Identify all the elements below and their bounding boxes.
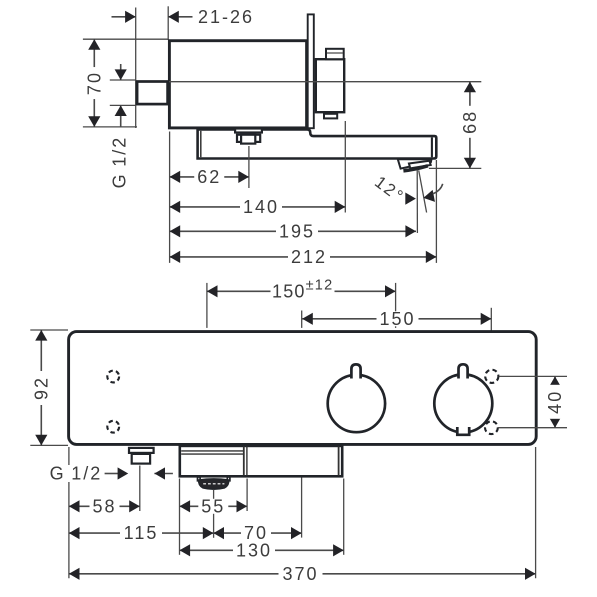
dimension 68 bottom extension line — [429, 167, 481, 169]
right knob pointer nub — [459, 364, 468, 378]
escutcheon and spout profile (side view) — [198, 129, 437, 158]
aerator highlight line — [203, 483, 224, 485]
valve cap seam — [327, 52, 343, 54]
centerline upper solid segment — [301, 311, 303, 328]
extension line spout left edge — [179, 479, 181, 555]
aerator mesh bar — [403, 166, 428, 171]
extension line nut center — [248, 146, 250, 188]
dimension 21-26 — [112, 16, 136, 18]
dimension 150+-12 left extension line — [206, 283, 208, 328]
extension line spout end — [435, 160, 437, 263]
svg-text:55: 55 — [201, 496, 225, 516]
dimension 70 (front) — [213, 532, 301, 534]
dimension 40 — [554, 376, 556, 427]
extension line below body front face — [169, 132, 171, 263]
spout housing inner right line — [338, 447, 340, 476]
centerline (dashed) — [301, 336, 303, 477]
dimension 130 — [180, 549, 344, 551]
svg-text:68: 68 — [460, 110, 480, 134]
svg-text:40: 40 — [545, 390, 565, 414]
aerator ear right — [227, 477, 230, 481]
wall plate — [308, 14, 314, 128]
wall face extension line — [135, 8, 137, 129]
dimension 40 top extension line — [499, 375, 567, 377]
svg-text:195: 195 — [279, 221, 315, 241]
inlet stub flange (front view) — [129, 448, 154, 453]
dimension 92 top extension line — [30, 329, 68, 331]
main body (side view) — [169, 41, 306, 128]
dimension 195 — [170, 230, 416, 232]
valve cartridge body — [316, 59, 344, 112]
mixer body (front view) — [69, 332, 537, 445]
spout seam line 1 — [181, 450, 243, 452]
dimension 62 — [170, 176, 249, 178]
extension line valve right edge — [344, 121, 346, 213]
G1/2 stub bottom extension line — [110, 104, 136, 106]
aerator face plate (tilted 12deg) — [409, 161, 431, 169]
svg-text:21-26: 21-26 — [198, 7, 254, 27]
12 deg right arrow with leader arc — [422, 190, 435, 204]
dimension 92 — [40, 330, 42, 445]
aerator ear left — [198, 477, 201, 481]
G1/2 wall stub — [137, 82, 168, 105]
extension line body left edge (below) — [68, 447, 70, 578]
dimension 150 — [302, 318, 491, 320]
svg-text:150: 150 — [379, 309, 415, 329]
valve bottom tab — [324, 114, 337, 119]
svg-text:70: 70 — [84, 71, 104, 95]
escutcheon inner edge line — [200, 131, 202, 157]
check valve nut flange — [235, 129, 262, 133]
dimension 140 — [170, 206, 346, 208]
svg-text:58: 58 — [92, 496, 116, 516]
svg-text:G 1/2: G 1/2 — [110, 136, 130, 189]
aerator (front view, dark) — [199, 479, 229, 489]
svg-text:G 1/2: G 1/2 — [50, 464, 103, 484]
svg-text:130: 130 — [236, 540, 272, 560]
dimension 55 — [180, 505, 248, 507]
dimension 70 — [93, 39, 95, 127]
spout divider line 1 — [243, 447, 245, 476]
12 deg left arrow — [405, 193, 416, 205]
12 deg reference vertical line — [416, 170, 418, 233]
extension line spout section right — [246, 479, 248, 512]
dimension 150+-12 — [207, 290, 396, 292]
dimension 58 — [69, 505, 140, 507]
dimension 370 — [69, 573, 536, 575]
screw hole top-right (dashed) — [485, 370, 498, 383]
right knob (volume handle) — [434, 374, 492, 432]
dimension 115 — [69, 532, 214, 534]
spout tip inner line — [431, 138, 433, 158]
left knob (thermostat handle) — [328, 375, 385, 432]
G1/2 lower arrow — [120, 105, 122, 127]
body front face extension line (top) — [167, 6, 169, 40]
dimension 92 bottom extension line — [30, 444, 68, 446]
dimension 68 — [469, 82, 471, 169]
aerator wedge (side view) — [398, 159, 432, 168]
dimension 70 top extension line — [83, 38, 168, 40]
12 deg slanted line — [419, 170, 427, 212]
right knob bottom tab — [457, 427, 469, 435]
svg-text:370: 370 — [282, 564, 318, 584]
dimension 150 right extension line — [490, 308, 492, 369]
extension line body right edge (below) — [535, 447, 537, 578]
dimension 70 bottom extension line — [83, 126, 137, 128]
dimension 150+-12 right extension line — [395, 283, 397, 328]
spout divider line 2 — [246, 447, 248, 476]
screw hole top-left (dashed) — [107, 371, 119, 383]
spout seam line 2 — [181, 453, 243, 455]
extension line aerator center — [213, 490, 215, 538]
screw hole bottom-left (dashed) — [107, 421, 119, 433]
svg-text:212: 212 — [291, 247, 327, 267]
svg-text:115: 115 — [124, 523, 159, 543]
valve cartridge cap — [326, 49, 344, 59]
left knob pointer nub — [351, 364, 360, 378]
dimension 40 bottom extension line — [498, 427, 567, 429]
screw hole bottom-right (dashed) — [485, 421, 498, 434]
dimension 212 — [170, 256, 437, 258]
G1/2 upper arrow — [120, 64, 122, 80]
inlet stub shank — [132, 454, 150, 464]
extension line spout housing right — [343, 479, 345, 555]
internal seam line / 68 top extension — [169, 81, 481, 83]
svg-text:140: 140 — [243, 197, 279, 217]
svg-text:62: 62 — [197, 167, 221, 187]
svg-text:92: 92 — [31, 376, 51, 400]
spout housing (front view) — [180, 446, 342, 476]
G1/2 stub top extension line — [110, 79, 136, 81]
check valve nut body — [237, 135, 260, 142]
check valve nut boss — [241, 135, 255, 144]
extension line inlet stub center — [139, 466, 141, 512]
centerline lower solid segment — [301, 477, 303, 538]
label G1/2 (front view) with arrows — [105, 473, 118, 475]
